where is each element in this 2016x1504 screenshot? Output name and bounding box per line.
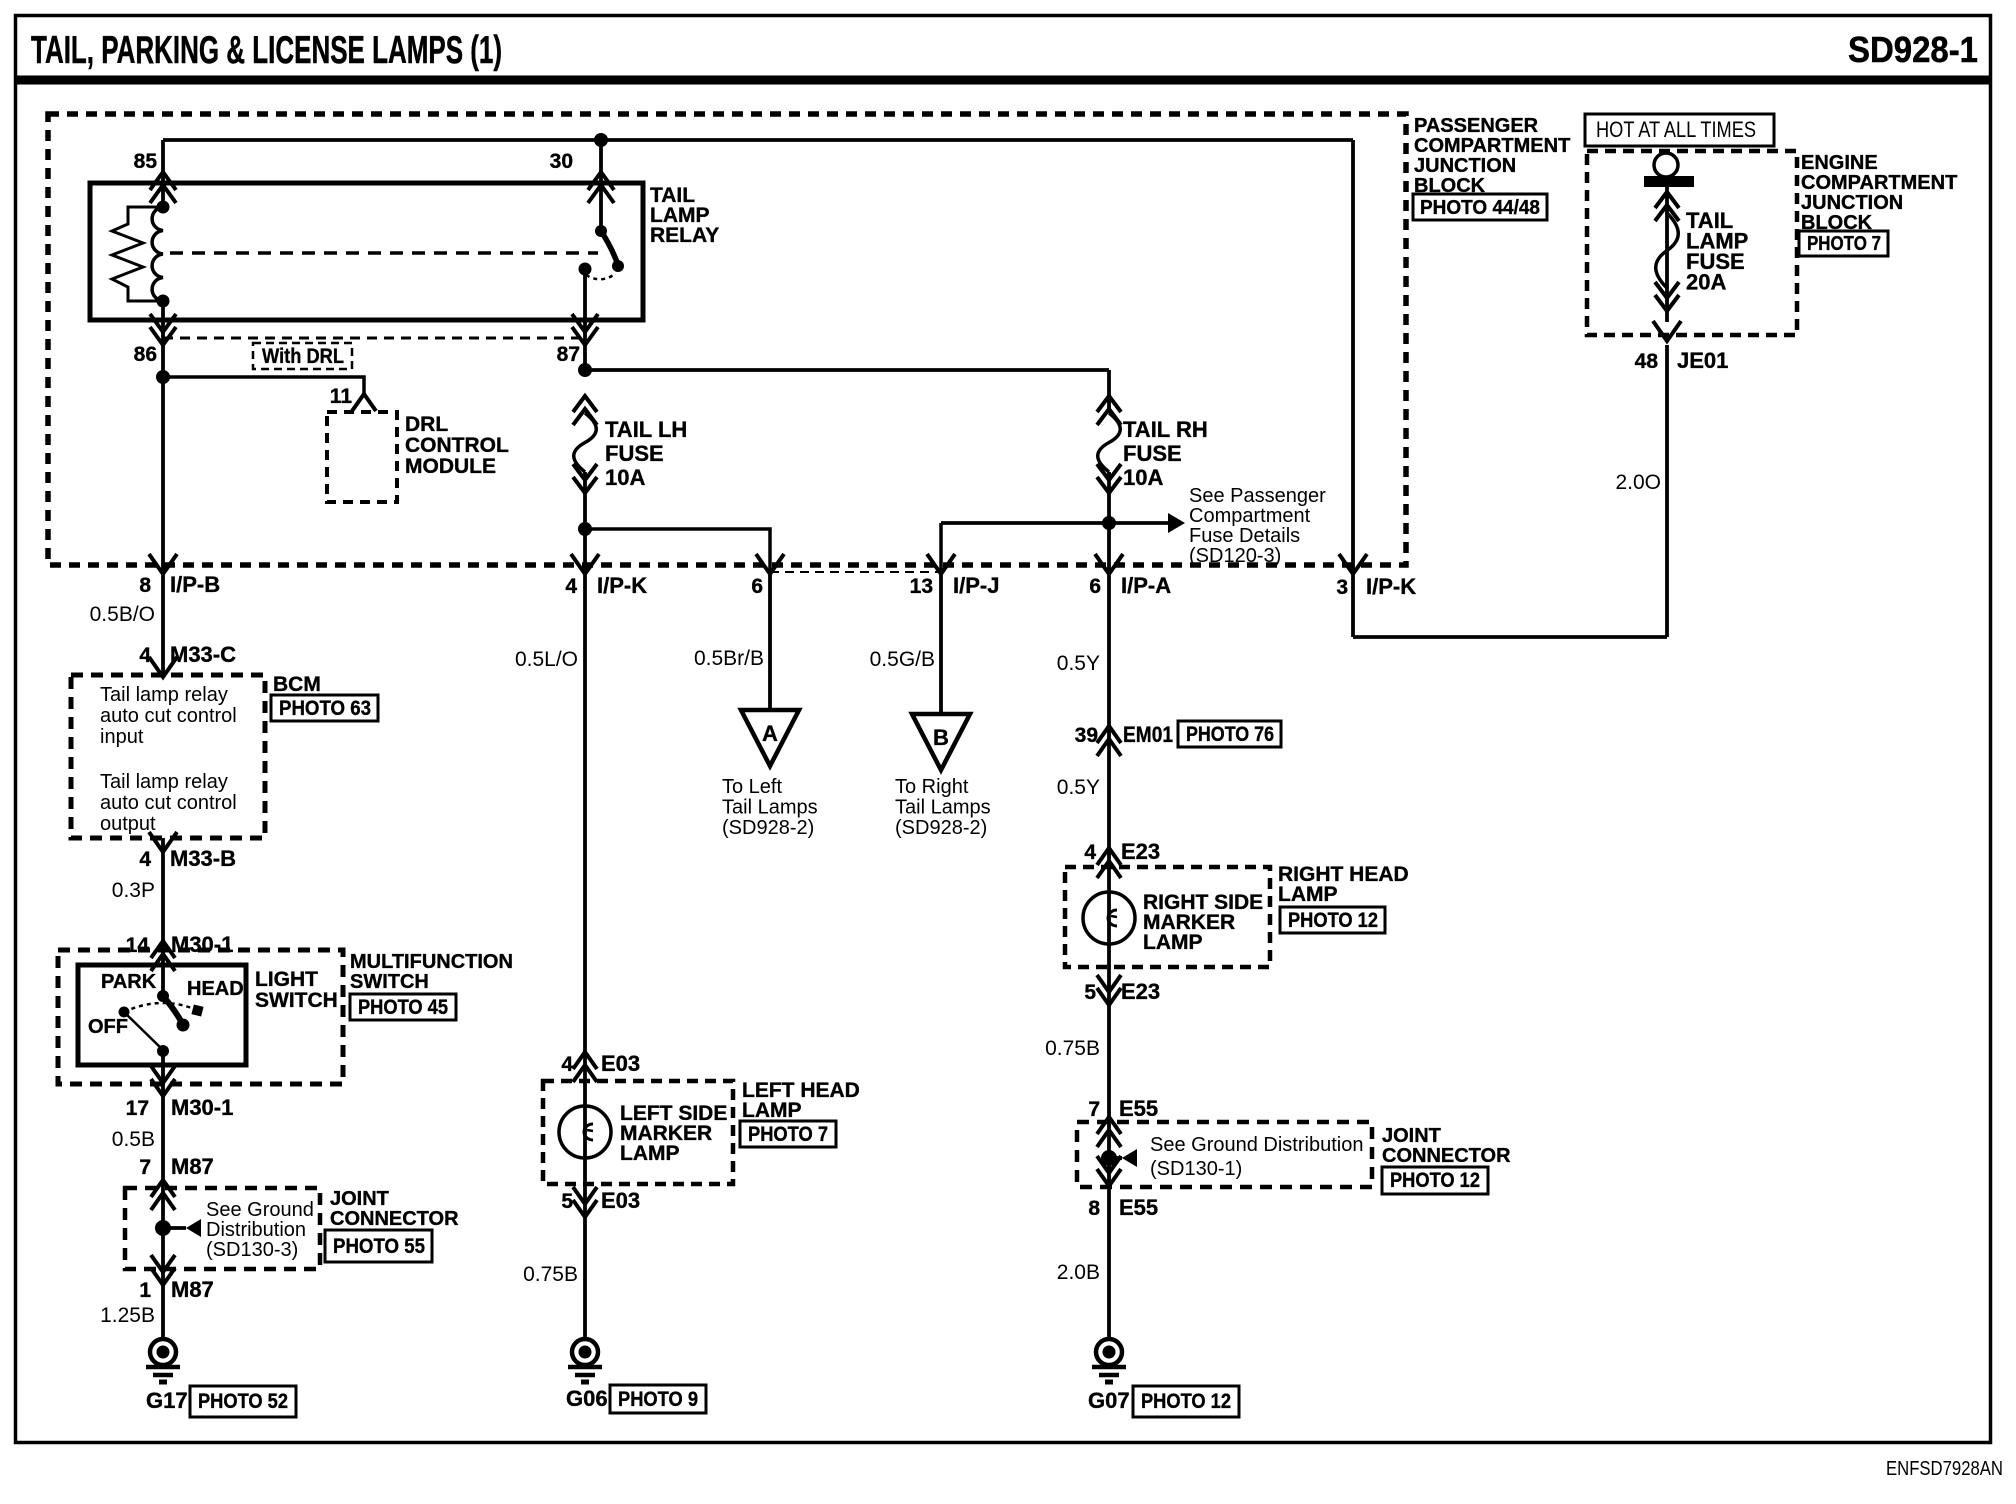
svg-text:LIGHT: LIGHT xyxy=(255,968,318,991)
svg-text:5: 5 xyxy=(1084,981,1096,1004)
svg-text:JUNCTION: JUNCTION xyxy=(1414,155,1516,177)
svg-text:JUNCTION: JUNCTION xyxy=(1801,192,1903,214)
svg-text:See Ground: See Ground xyxy=(206,1199,314,1221)
relay pin 30 wire xyxy=(599,140,603,231)
svg-text:G06: G06 xyxy=(566,1386,608,1411)
svg-text:MULTIFUNCTION: MULTIFUNCTION xyxy=(350,951,513,973)
wire: connector 13 to triangle B xyxy=(939,574,943,714)
svg-text:M30-1: M30-1 xyxy=(171,932,233,957)
connector 6 I/P-A chevron xyxy=(1095,554,1123,574)
right side marker lamp bulb xyxy=(1083,892,1135,944)
wire: junction to connector 13 and fuse-details arrow xyxy=(941,521,1168,525)
svg-text:1: 1 xyxy=(139,1279,151,1302)
svg-text:M87: M87 xyxy=(171,1277,214,1302)
svg-text:CONNECTOR: CONNECTOR xyxy=(330,1208,459,1230)
svg-text:2.0O: 2.0O xyxy=(1615,471,1661,494)
svg-text:7: 7 xyxy=(1088,1098,1100,1121)
svg-text:output: output xyxy=(100,813,156,835)
svg-text:MODULE: MODULE xyxy=(405,455,496,478)
svg-text:COMPARTMENT: COMPARTMENT xyxy=(1801,172,1957,194)
svg-text:0.5L/O: 0.5L/O xyxy=(515,648,578,671)
svg-text:13: 13 xyxy=(910,575,933,598)
relay coil node B xyxy=(157,295,170,308)
svg-text:E55: E55 xyxy=(1119,1096,1158,1121)
svg-text:TAIL, PARKING & LICENSE LAMPS: TAIL, PARKING & LICENSE LAMPS (1) xyxy=(31,29,502,72)
svg-text:G07: G07 xyxy=(1088,1388,1130,1413)
junction below lh fuse xyxy=(578,522,592,536)
svg-text:CONTROL: CONTROL xyxy=(405,434,509,457)
HOT AT ALL TIMES tag xyxy=(1585,114,1774,146)
svg-text:input: input xyxy=(100,726,144,748)
relay pin 86 wire xyxy=(161,301,165,675)
svg-text:(SD120-3): (SD120-3) xyxy=(1189,545,1281,567)
light switch contact HEAD xyxy=(191,1004,203,1016)
svg-text:PHOTO 12: PHOTO 12 xyxy=(1390,1169,1480,1192)
DRL control module box (dashed) xyxy=(327,412,397,502)
label PHOTO 7 xyxy=(740,1121,836,1147)
tail lamp fuse element xyxy=(1656,213,1679,288)
wire to 3 I/P-K (down right side of junction block) xyxy=(1351,140,1355,637)
multifunction switch box (dashed) xyxy=(58,950,343,1084)
svg-text:COMPARTMENT: COMPARTMENT xyxy=(1414,135,1570,157)
svg-text:ENFSD7928AN: ENFSD7928AN xyxy=(1886,1458,2003,1480)
connector 7 E55 chevrons xyxy=(1097,1117,1121,1134)
right head lamp box (dashed) xyxy=(1065,867,1270,967)
joint connector left junction xyxy=(155,1220,171,1236)
relay socket dashed line xyxy=(163,337,585,340)
svg-text:M30-1: M30-1 xyxy=(171,1095,233,1120)
connector 39 EM01 chevrons xyxy=(1097,726,1121,743)
svg-text:PHOTO 52: PHOTO 52 xyxy=(198,1390,288,1413)
light switch wiper to output xyxy=(124,1012,163,1050)
svg-text:OFF: OFF xyxy=(88,1016,128,1038)
svg-text:8: 8 xyxy=(139,574,151,597)
relay actuation dashed link xyxy=(170,251,598,255)
light switch pivot xyxy=(157,990,169,1002)
svg-text:G17: G17 xyxy=(146,1388,188,1413)
relay pin 87 wire xyxy=(583,269,587,372)
svg-text:PARK: PARK xyxy=(101,971,157,993)
label PHOTO 12 (joint connector) xyxy=(1382,1167,1488,1194)
svg-text:86: 86 xyxy=(134,343,157,366)
With DRL dashed tag xyxy=(253,343,352,369)
svg-text:39: 39 xyxy=(1075,724,1098,747)
svg-text:6: 6 xyxy=(751,575,763,598)
svg-text:PHOTO 63: PHOTO 63 xyxy=(279,697,371,720)
svg-text:TAIL RH: TAIL RH xyxy=(1123,417,1208,442)
left side marker lamp bulb xyxy=(559,1106,611,1158)
svg-text:5: 5 xyxy=(561,1190,573,1213)
junction at pin 30 xyxy=(594,133,608,147)
pin 87 connector chevrons xyxy=(572,314,598,332)
svg-text:PHOTO 7: PHOTO 7 xyxy=(1807,233,1881,255)
ground G17 xyxy=(150,1339,176,1365)
svg-text:I/P-J: I/P-J xyxy=(953,573,999,598)
wire: 3 I/P-K to JE01 (bottom run) xyxy=(1353,635,1667,639)
tail lh fuse terminal chevrons (bottom) xyxy=(573,464,597,480)
wire: JE01 riser xyxy=(1665,345,1669,637)
connector 4 E03 chevrons xyxy=(573,1052,597,1069)
svg-text:7: 7 xyxy=(139,1156,151,1179)
svg-text:LAMP: LAMP xyxy=(1278,883,1338,906)
wire: pin 87 to tail rh fuse (horizontal) xyxy=(585,368,1109,372)
title bar rule xyxy=(15,76,1991,85)
svg-text:0.5B/O: 0.5B/O xyxy=(90,603,155,626)
label PHOTO 63 xyxy=(271,695,378,721)
fuse details arrow xyxy=(1168,513,1185,533)
wire: terminal to tail lamp fuse xyxy=(1665,187,1669,322)
svg-text:I/P-B: I/P-B xyxy=(170,572,220,597)
svg-text:M87: M87 xyxy=(171,1154,214,1179)
engine compartment junction block (dashed) xyxy=(1587,151,1797,335)
svg-text:Tail Lamps: Tail Lamps xyxy=(722,797,818,819)
svg-text:6: 6 xyxy=(1089,575,1101,598)
label PHOTO 12 (right head lamp) xyxy=(1280,907,1385,933)
connector 6 chevron xyxy=(756,554,784,574)
svg-text:FUSE: FUSE xyxy=(605,441,664,466)
svg-text:Fuse Details: Fuse Details xyxy=(1189,525,1300,547)
svg-text:85: 85 xyxy=(134,150,158,173)
pin 85 connector chevrons xyxy=(150,172,176,190)
svg-text:30: 30 xyxy=(550,150,573,173)
label PHOTO 44/48 xyxy=(1413,194,1547,220)
light switch contact PARK xyxy=(119,1007,130,1018)
svg-text:4: 4 xyxy=(565,575,577,598)
connector 4 E23 chevrons xyxy=(1097,848,1121,865)
connector 4 M33-B chevron xyxy=(149,832,177,852)
svg-text:0.3P: 0.3P xyxy=(112,879,155,902)
svg-text:Compartment: Compartment xyxy=(1189,505,1311,527)
svg-text:E03: E03 xyxy=(601,1051,640,1076)
relay coil node A xyxy=(157,201,170,214)
svg-text:Distribution: Distribution xyxy=(206,1219,306,1241)
svg-text:0.5G/B: 0.5G/B xyxy=(870,648,935,671)
pin 30 connector chevrons xyxy=(588,172,614,190)
svg-text:I/P-K: I/P-K xyxy=(1366,574,1416,599)
wire: relay pin 85 / pin 30 / engine-fuse bus (node) xyxy=(163,138,1353,142)
wire: rh fuse to right column / G07 xyxy=(1107,472,1111,1339)
svg-text:CONNECTOR: CONNECTOR xyxy=(1382,1145,1511,1167)
connector 17 M30-1 chevrons xyxy=(151,1066,175,1083)
tail lamp fuse chevrons (top) xyxy=(1655,192,1679,208)
svg-text:LAMP: LAMP xyxy=(620,1142,680,1165)
label PHOTO 76 xyxy=(1178,721,1281,747)
svg-text:(SD130-1): (SD130-1) xyxy=(1150,1158,1242,1180)
label PHOTO 12 (G07) xyxy=(1133,1386,1239,1417)
svg-text:4: 4 xyxy=(1084,841,1096,864)
svg-text:LAMP: LAMP xyxy=(1143,931,1203,954)
see ground distribution arrow (left) xyxy=(186,1219,201,1237)
tail lamp relay box xyxy=(90,183,643,320)
light switch travel arc (dashed) xyxy=(124,1003,197,1012)
label PHOTO 55 xyxy=(325,1230,432,1262)
svg-text:PHOTO 44/48: PHOTO 44/48 xyxy=(1420,197,1540,219)
svg-text:With DRL: With DRL xyxy=(262,345,344,368)
branch wire to connector 6 (A) xyxy=(585,529,770,574)
ground G07 xyxy=(1096,1339,1122,1365)
BCM box (dashed) xyxy=(71,675,265,838)
svg-text:M33-C: M33-C xyxy=(170,642,236,667)
left head lamp box (dashed) xyxy=(543,1081,733,1184)
connector 1 M87 chevrons xyxy=(151,1255,175,1272)
svg-text:M33-B: M33-B xyxy=(170,846,236,871)
svg-text:0.75B: 0.75B xyxy=(523,1263,578,1286)
connector 8 I/P-B chevron xyxy=(149,554,177,574)
svg-text:I/P-A: I/P-A xyxy=(1121,573,1171,598)
svg-text:ENGINE: ENGINE xyxy=(1801,152,1878,174)
light switch box xyxy=(78,965,246,1065)
svg-text:0.5Y: 0.5Y xyxy=(1057,652,1100,675)
connector 3 I/P-K chevron xyxy=(1339,554,1367,574)
wire: bus to tail rh fuse xyxy=(1107,370,1111,413)
relay switch arm xyxy=(601,231,618,265)
svg-text:17: 17 xyxy=(126,1097,149,1120)
connector 48 JE01 chevron xyxy=(1653,321,1681,341)
svg-text:To Right: To Right xyxy=(895,776,969,798)
tail rh fuse terminal chevrons (bottom) xyxy=(1097,464,1121,480)
svg-text:JOINT: JOINT xyxy=(330,1188,389,1210)
pin 86 connector chevrons xyxy=(150,314,176,332)
svg-text:FUSE: FUSE xyxy=(1123,441,1182,466)
connector 14 M30-1 chevrons xyxy=(151,941,175,958)
junction below rh fuse xyxy=(1102,516,1116,530)
svg-text:48: 48 xyxy=(1635,350,1659,373)
svg-text:(SD928-2): (SD928-2) xyxy=(895,817,987,839)
connector 8 E55 chevrons xyxy=(1097,1156,1121,1173)
svg-text:20A: 20A xyxy=(1686,270,1726,295)
svg-text:SD928-1: SD928-1 xyxy=(1848,29,1978,70)
wire: connector 6 to triangle A xyxy=(768,574,772,710)
svg-text:Tail lamp relay: Tail lamp relay xyxy=(100,771,228,793)
svg-text:11: 11 xyxy=(330,385,353,408)
svg-text:Tail lamp relay: Tail lamp relay xyxy=(100,684,228,706)
svg-text:14: 14 xyxy=(126,934,150,957)
svg-text:I/P-K: I/P-K xyxy=(597,573,647,598)
passenger compartment junction block (dashed) xyxy=(48,114,1406,565)
relay contact 87 xyxy=(579,263,592,276)
svg-text:RELAY: RELAY xyxy=(650,224,719,247)
connector 4 I/P-K chevron xyxy=(571,554,599,574)
svg-text:A: A xyxy=(762,721,778,746)
joint connector right junction xyxy=(1101,1150,1117,1166)
svg-text:E23: E23 xyxy=(1121,839,1160,864)
svg-text:See Ground Distribution: See Ground Distribution xyxy=(1150,1134,1363,1156)
tail lh fuse element xyxy=(574,413,597,472)
relay resistor R1 (parallel with coil) xyxy=(112,207,163,301)
relay pin 85 wire xyxy=(161,140,165,207)
svg-text:B: B xyxy=(933,725,949,750)
svg-text:LAMP: LAMP xyxy=(742,1099,802,1122)
svg-text:PHOTO 45: PHOTO 45 xyxy=(358,996,448,1019)
tail rh fuse terminal chevrons (top) xyxy=(1097,396,1121,412)
connector 4 M33-C chevron xyxy=(149,657,177,677)
svg-text:BCM: BCM xyxy=(273,673,321,696)
svg-text:4: 4 xyxy=(139,848,151,871)
connector 13 I/P-J chevron xyxy=(927,554,955,574)
tail rh fuse element xyxy=(1098,413,1121,472)
label PHOTO 52 xyxy=(190,1386,296,1417)
svg-text:(SD928-2): (SD928-2) xyxy=(722,817,814,839)
svg-text:E03: E03 xyxy=(601,1188,640,1213)
see ground distribution arrow (right) xyxy=(1122,1149,1137,1167)
off-page triangle A xyxy=(741,710,799,766)
light switch output node xyxy=(157,1045,169,1057)
wire: BCM to light switch xyxy=(161,838,165,996)
svg-text:0.75B: 0.75B xyxy=(1045,1037,1100,1060)
svg-text:PHOTO 7: PHOTO 7 xyxy=(748,1123,828,1146)
svg-text:PHOTO 76: PHOTO 76 xyxy=(1186,723,1274,746)
off-page triangle B xyxy=(912,714,970,770)
svg-text:TAIL LH: TAIL LH xyxy=(605,417,687,442)
connector 7 M87 chevrons xyxy=(151,1180,175,1197)
svg-text:PHOTO 12: PHOTO 12 xyxy=(1288,909,1378,932)
light switch arm (to HEAD) xyxy=(163,996,182,1023)
svg-text:8: 8 xyxy=(1088,1197,1100,1220)
svg-text:10A: 10A xyxy=(1123,465,1163,490)
tail lamp fuse chevrons (bottom) xyxy=(1655,282,1679,298)
junction: pin 87 node xyxy=(578,363,592,377)
svg-text:3: 3 xyxy=(1336,576,1348,599)
svg-text:(SD130-3): (SD130-3) xyxy=(206,1239,298,1261)
relay switch pivot xyxy=(595,225,607,237)
svg-text:See Passenger: See Passenger xyxy=(1189,485,1326,507)
relay coil L1 xyxy=(152,207,163,301)
svg-text:JE01: JE01 xyxy=(1677,348,1728,373)
wire: light switch to ground G17 xyxy=(161,1051,165,1339)
wire: lh fuse to connector 4 I/P-K xyxy=(583,472,587,574)
ground G06 xyxy=(572,1339,598,1365)
svg-text:JOINT: JOINT xyxy=(1382,1125,1441,1147)
svg-text:0.5Br/B: 0.5Br/B xyxy=(694,647,764,670)
inter-connector dashed link xyxy=(770,571,941,573)
svg-text:0.5B: 0.5B xyxy=(112,1128,155,1151)
connector 5 E23 chevrons xyxy=(1097,975,1121,992)
svg-text:auto cut control: auto cut control xyxy=(100,792,237,814)
wire: 4 I/P-K to left side marker lamp and G06 xyxy=(583,574,587,1339)
svg-text:PHOTO 9: PHOTO 9 xyxy=(618,1388,698,1411)
battery feed terminal xyxy=(1654,153,1678,177)
svg-text:4: 4 xyxy=(561,1053,573,1076)
svg-text:SWITCH: SWITCH xyxy=(255,989,338,1012)
svg-text:2.0B: 2.0B xyxy=(1057,1261,1100,1284)
svg-text:SWITCH: SWITCH xyxy=(350,971,429,993)
wire: pin 86 to DRL control module xyxy=(156,370,170,384)
joint connector box right (dashed) xyxy=(1077,1122,1372,1187)
svg-text:To Left: To Left xyxy=(722,776,782,798)
label PHOTO 7 (engine block) xyxy=(1799,231,1888,256)
svg-text:10A: 10A xyxy=(605,465,645,490)
svg-text:0.5Y: 0.5Y xyxy=(1057,776,1100,799)
joint connector box left (dashed) xyxy=(125,1188,320,1269)
svg-text:PASSENGER: PASSENGER xyxy=(1414,115,1539,137)
svg-text:EM01: EM01 xyxy=(1123,722,1173,747)
relay switch travel arc (dashed) xyxy=(586,274,615,279)
svg-text:DRL: DRL xyxy=(405,413,448,436)
label PHOTO 9 xyxy=(610,1385,706,1413)
svg-text:E23: E23 xyxy=(1121,979,1160,1004)
svg-text:Tail Lamps: Tail Lamps xyxy=(895,797,991,819)
label PHOTO 45 xyxy=(350,994,456,1020)
branch wire to connector 13 (B) xyxy=(939,523,943,574)
svg-text:HOT AT ALL TIMES: HOT AT ALL TIMES xyxy=(1596,117,1756,142)
svg-text:auto cut control: auto cut control xyxy=(100,705,237,727)
tail lh fuse terminal chevrons (top) xyxy=(573,396,597,412)
svg-text:PHOTO 55: PHOTO 55 xyxy=(333,1235,425,1258)
DRL pin 11 chevron xyxy=(352,394,376,411)
svg-text:PHOTO 12: PHOTO 12 xyxy=(1141,1390,1231,1413)
svg-text:1.25B: 1.25B xyxy=(100,1304,155,1327)
svg-text:87: 87 xyxy=(557,343,580,366)
svg-text:E55: E55 xyxy=(1119,1195,1158,1220)
svg-text:HEAD: HEAD xyxy=(187,978,244,1000)
connector 5 E03 chevrons xyxy=(573,1187,597,1204)
svg-text:4: 4 xyxy=(139,644,151,667)
